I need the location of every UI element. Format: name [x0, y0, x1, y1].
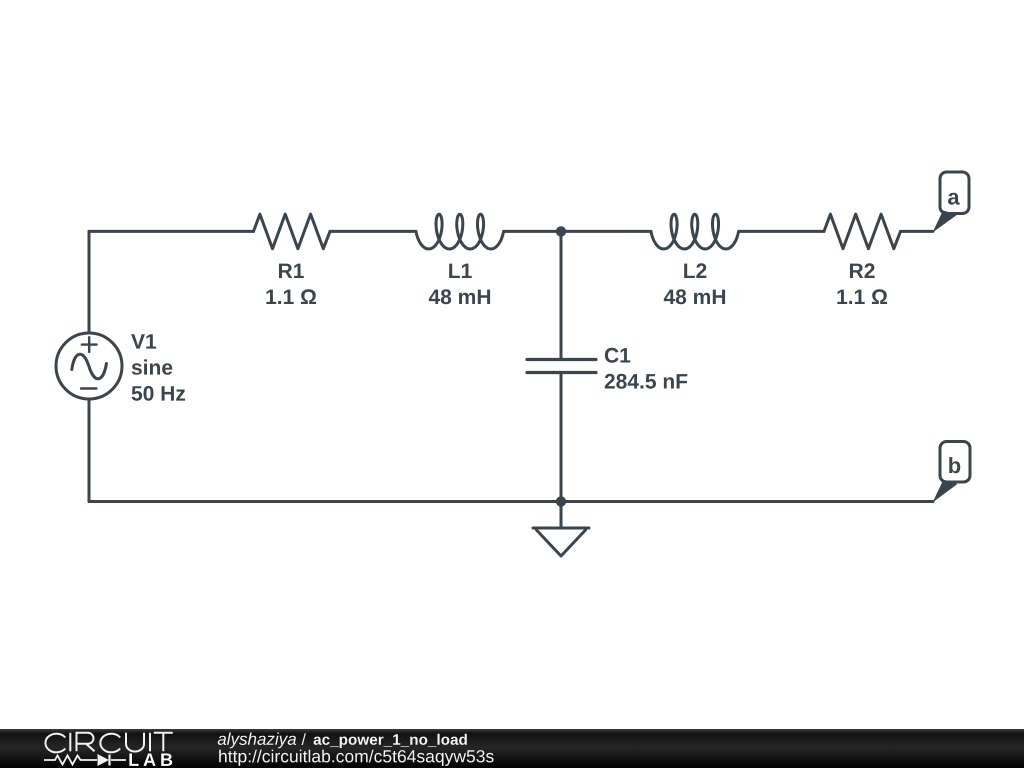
label R2 value 1.1 ohm: [837, 289, 887, 304]
logo letter T: [154, 732, 173, 751]
wire left vertical below V1: [88, 399, 91, 502]
resistor R1: [254, 214, 331, 249]
V1 minus sign: [81, 387, 96, 389]
footer separator slash: [302, 733, 306, 745]
label C1 value 284.5 nF: [605, 374, 688, 389]
terminal a wedge: [933, 211, 958, 233]
footer bar: [0, 729, 1024, 769]
label V1 designator: [131, 334, 156, 348]
resistor R2: [824, 214, 901, 249]
label R1 value 1.1 ohm: [266, 289, 316, 304]
footer circuit title bold: [314, 733, 467, 747]
CircuitLab logo: [0, 729, 200, 768]
logo letter I: [69, 732, 71, 751]
wire R1 to L1: [330, 230, 416, 233]
ground triangle: [537, 530, 586, 556]
logo letter U: [126, 732, 144, 751]
wire top-left vertical: [88, 231, 91, 333]
wire R2 to terminal a: [901, 230, 934, 233]
ground stub: [560, 502, 563, 529]
label V1 value 50 Hz: [132, 386, 186, 401]
wire L2 to R2: [739, 230, 824, 233]
label L2 designator: [684, 263, 706, 278]
logo letter I2: [149, 732, 151, 751]
inductor L2: [651, 214, 739, 249]
node junction top: [556, 226, 566, 236]
ground top bar: [533, 527, 589, 530]
logo letter C2: [100, 733, 120, 752]
wire top horizontal left: [89, 230, 254, 233]
capacitor C1 bottom lead: [560, 373, 563, 502]
logo LAB text: [129, 753, 172, 765]
capacitor C1 top lead: [560, 231, 563, 359]
label R1 designator: [279, 264, 304, 278]
V1 sine symbol: [72, 354, 107, 378]
label L2 value 48 mH: [664, 289, 725, 304]
footer author name italic: [218, 732, 296, 748]
label V1 type sine: [132, 359, 173, 374]
wire L1 to L2: [504, 230, 651, 233]
terminal b wedge: [933, 481, 958, 503]
V1 source circle: [56, 333, 122, 399]
capacitor C1 plates: [527, 360, 596, 373]
logo letter C: [45, 733, 65, 752]
logo diode bar: [108, 754, 110, 765]
label C1 designator: [605, 348, 630, 363]
logo letter R: [77, 732, 95, 751]
node junction bottom: [556, 496, 566, 506]
V1 plus sign: [82, 337, 97, 352]
terminal a letter: [948, 193, 960, 205]
label L1 value 48 mH: [429, 289, 490, 304]
label R2 designator: [850, 263, 875, 278]
wire bottom horizontal: [89, 500, 933, 503]
inductor L1: [416, 214, 504, 249]
logo diode triangle: [98, 754, 110, 766]
label L1 designator: [449, 264, 472, 278]
logo resistor squiggle: [44, 755, 126, 764]
terminal a box: [940, 172, 969, 214]
terminal b letter: [949, 457, 960, 473]
terminal b box: [940, 442, 970, 483]
footer url text: [219, 749, 493, 765]
